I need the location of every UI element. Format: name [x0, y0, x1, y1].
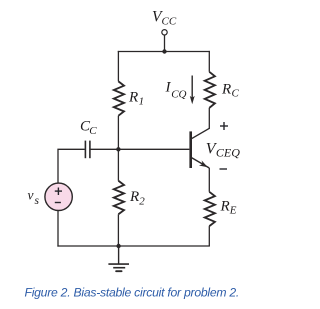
- svg-text:Figure 2. Bias-stable circuit: Figure 2. Bias-stable circuit for proble…: [25, 286, 240, 300]
- wire base: [118, 148, 189, 150]
- wire RE to bottom rail: [208, 226, 210, 246]
- svg-text:C: C: [89, 125, 97, 137]
- wire RC to collector: [208, 108, 210, 129]
- current arrow ICQ: [190, 76, 195, 105]
- wire vs bottom: [57, 210, 59, 246]
- svg-text:R: R: [220, 199, 230, 215]
- svg-text:R: R: [129, 189, 139, 205]
- label RE: [220, 199, 237, 217]
- wire capacitor to base node: [90, 148, 119, 150]
- wire VCC stem: [164, 35, 166, 52]
- wire bottom rail: [57, 245, 210, 247]
- svg-text:C: C: [232, 88, 240, 100]
- wire RC branch top: [208, 51, 210, 72]
- label ICQ: [165, 80, 187, 101]
- wire top rail: [118, 51, 210, 53]
- VCC terminal circle: [162, 30, 167, 35]
- svg-text:CEQ: CEQ: [216, 146, 240, 160]
- wire R1 to base node: [117, 116, 119, 150]
- label VCEQ: [206, 141, 240, 160]
- source vs: [45, 183, 72, 210]
- wire R2 to bottom rail: [117, 214, 119, 246]
- label R2: [129, 189, 145, 208]
- resistor RC: [205, 72, 215, 108]
- svg-text:1: 1: [139, 96, 145, 108]
- ground: [108, 246, 129, 271]
- resistor R2: [114, 181, 124, 215]
- svg-text:2: 2: [139, 196, 145, 208]
- wire base node to R2: [117, 149, 119, 181]
- svg-text:E: E: [229, 205, 237, 217]
- label RC: [221, 82, 240, 100]
- transistor Q1: [189, 128, 209, 168]
- junction dot base node: [116, 147, 120, 151]
- wire vs top to capacitor: [58, 149, 85, 183]
- label vs: [28, 188, 40, 208]
- svg-text:CC: CC: [162, 15, 177, 27]
- svg-text:CQ: CQ: [171, 89, 186, 101]
- label plus collector: [220, 122, 228, 130]
- wire emitter to RE: [208, 168, 210, 192]
- wire R1 branch top: [117, 51, 119, 82]
- capacitor CC: [85, 141, 90, 159]
- junction dot ground node: [116, 244, 120, 248]
- label R1: [128, 90, 144, 108]
- svg-text:R: R: [128, 90, 138, 106]
- svg-text:v: v: [28, 188, 34, 203]
- label minus emitter: [220, 168, 228, 170]
- svg-text:s: s: [35, 195, 40, 207]
- resistor R1: [114, 81, 124, 115]
- svg-text:R: R: [221, 82, 231, 98]
- resistor RE: [205, 192, 215, 226]
- label CC: [80, 119, 97, 137]
- node VCC label: [152, 9, 177, 28]
- junction dot VCC rail: [162, 49, 166, 53]
